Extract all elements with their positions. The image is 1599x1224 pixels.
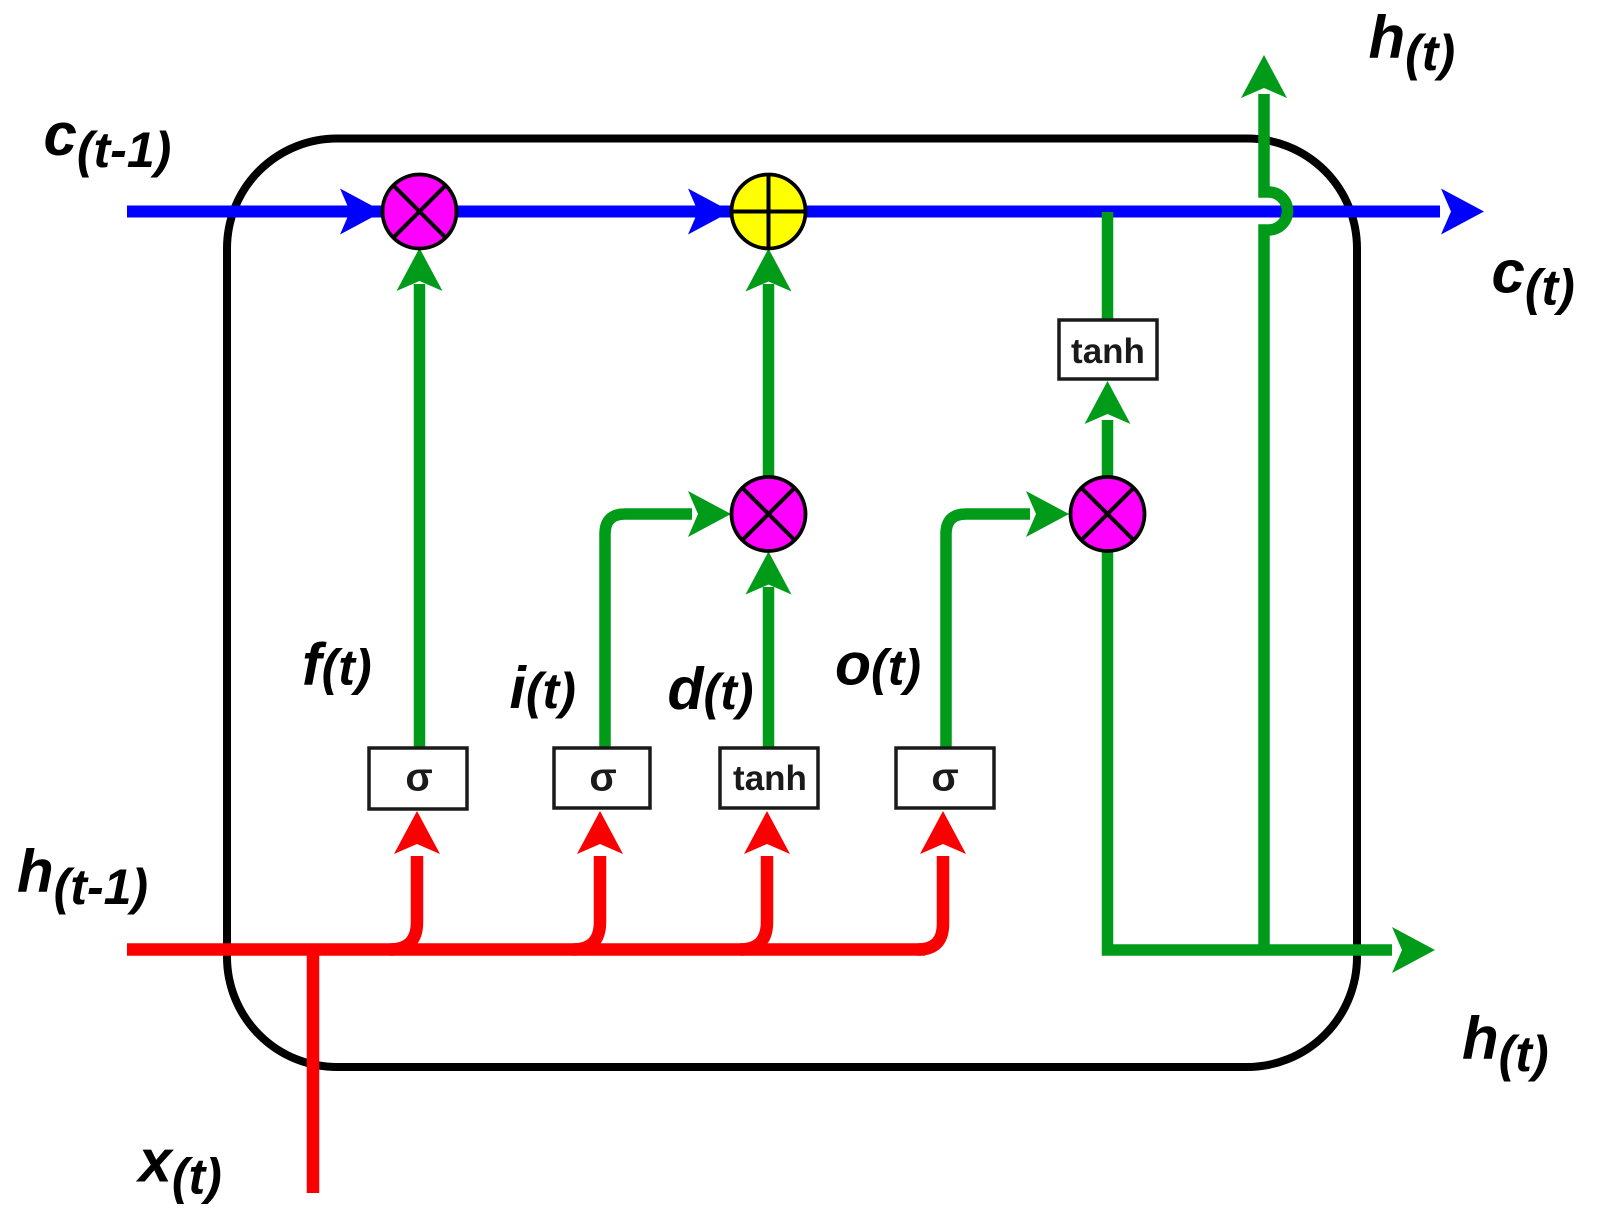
svg-text:d(t): d(t)	[668, 656, 754, 722]
svg-text:σ: σ	[931, 756, 958, 800]
svg-text:i(t): i(t)	[510, 655, 576, 721]
svg-text:o(t): o(t)	[835, 632, 921, 698]
svg-text:σ: σ	[589, 756, 616, 800]
svg-text:tanh: tanh	[1071, 332, 1145, 371]
svg-text:σ: σ	[405, 756, 432, 800]
svg-text:f(t): f(t)	[302, 632, 372, 698]
svg-text:tanh: tanh	[733, 759, 807, 798]
